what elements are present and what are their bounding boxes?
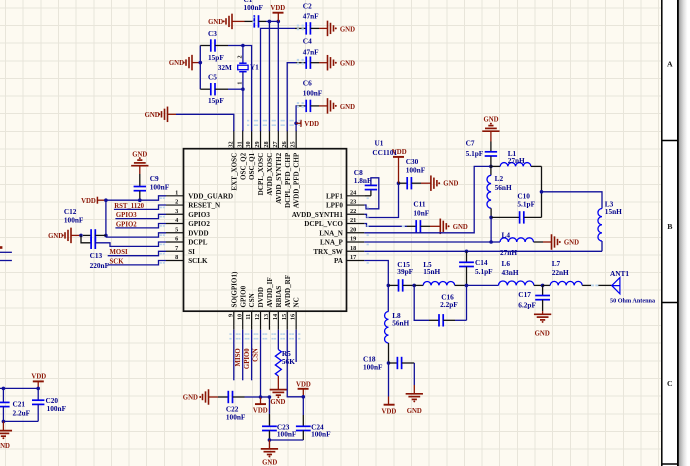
junction node AVDD_XOSC drop bbox=[268, 20, 272, 24]
pin 25 (AVDD_PFD_CHP) bbox=[295, 130, 297, 149]
svg-text:16: 16 bbox=[290, 314, 297, 320]
svg-text:DCPL_VCO: DCPL_VCO bbox=[304, 220, 343, 228]
ground GND (left of C1) bbox=[231, 14, 233, 30]
svg-text:29: 29 bbox=[254, 141, 261, 147]
wire C8 top loop to pin23 LPF0 bbox=[364, 178, 379, 209]
capacitor C30 bbox=[399, 182, 408, 184]
svg-text:23: 23 bbox=[350, 199, 356, 206]
capacitor C1 bbox=[253, 15, 255, 27]
pin 23 (LPF0) bbox=[347, 204, 365, 206]
junction VDD tee (right group) bbox=[302, 395, 306, 399]
pin 32 (EXT_XOSC) bbox=[233, 130, 235, 149]
ground GND (C23/C24) bbox=[268, 440, 270, 449]
svg-text:OSC_Q1: OSC_Q1 bbox=[248, 152, 256, 180]
svg-text:L7: L7 bbox=[552, 259, 561, 268]
svg-text:GND: GND bbox=[407, 408, 422, 415]
junction node pin25/VDD bbox=[294, 122, 298, 126]
wire L3 bottom to TRX_SW bbox=[601, 241, 603, 251]
svg-text:18: 18 bbox=[350, 245, 356, 252]
ground GND (C11) bbox=[439, 219, 441, 235]
pin 10 (GPIO0) bbox=[242, 311, 244, 330]
svg-text:GND: GND bbox=[208, 19, 223, 26]
svg-text:AVDD_XOSC: AVDD_XOSC bbox=[266, 153, 274, 196]
junction C7/L1/L2 node bbox=[489, 165, 493, 169]
svg-text:GPIO0: GPIO0 bbox=[244, 348, 251, 369]
svg-text:13: 13 bbox=[263, 314, 270, 320]
pin 9 (SO(GPIO1)) bbox=[233, 311, 235, 330]
inductor L4 bbox=[491, 241, 500, 243]
svg-text:L4: L4 bbox=[502, 231, 511, 240]
svg-text:10nF: 10nF bbox=[413, 208, 429, 217]
svg-text:L2: L2 bbox=[495, 174, 504, 183]
svg-text:17: 17 bbox=[350, 254, 356, 261]
svg-text:32: 32 bbox=[227, 141, 234, 147]
wire L1 right vertical bbox=[541, 166, 543, 217]
svg-text:LPF1: LPF1 bbox=[326, 192, 343, 200]
wire pin9 MISO bbox=[233, 330, 235, 381]
wire pin20 LNA_N bbox=[364, 166, 491, 232]
resistor R5 bbox=[277, 330, 279, 350]
svg-text:NC: NC bbox=[293, 297, 301, 307]
inductor L6 bbox=[467, 284, 499, 286]
power VDD (C22) bbox=[260, 397, 262, 404]
pin 26 (DCPL_PFD_CHP) bbox=[286, 130, 288, 149]
svg-text:DCPL_XOSC: DCPL_XOSC bbox=[257, 153, 265, 196]
svg-text:TRX_SW: TRX_SW bbox=[313, 248, 343, 256]
svg-text:C17: C17 bbox=[518, 290, 531, 299]
svg-text:DVDD: DVDD bbox=[188, 229, 209, 237]
svg-text:VDD: VDD bbox=[304, 121, 319, 128]
wire C5 right lead bbox=[215, 88, 228, 90]
wire pin26 to C4 bbox=[287, 63, 296, 132]
pin 11 (CSN) bbox=[251, 311, 253, 330]
junction GND node bbox=[268, 438, 272, 442]
svg-text:AVDD_PFD_CHP: AVDD_PFD_CHP bbox=[293, 152, 301, 208]
wire pin12 DVDD down bbox=[260, 330, 262, 397]
wire C9 upper lead bbox=[139, 166, 141, 174]
svg-text:SI: SI bbox=[188, 248, 195, 256]
junction node AVDD_SYNTH2 drop bbox=[277, 20, 281, 24]
svg-text:56nH: 56nH bbox=[495, 183, 512, 192]
svg-text:GND: GND bbox=[145, 112, 160, 119]
ground GND (pin32 EXT_XOSC) bbox=[167, 107, 169, 123]
svg-text:19: 19 bbox=[350, 236, 356, 243]
svg-text:VDD_GUARD: VDD_GUARD bbox=[188, 192, 233, 200]
svg-text:GPIO2: GPIO2 bbox=[188, 220, 210, 228]
wire pin13 down to C23 bbox=[268, 397, 270, 414]
svg-text:VDD: VDD bbox=[31, 374, 46, 381]
pin 29 (DCPL_XOSC) bbox=[260, 130, 262, 149]
wire C6 right lead bbox=[311, 105, 320, 107]
svg-text:ANT1: ANT1 bbox=[610, 269, 629, 278]
wire C20 bottom to C21 bbox=[3, 420, 38, 422]
svg-text:C2: C2 bbox=[303, 1, 312, 10]
svg-text:C: C bbox=[667, 379, 673, 388]
svg-text:26: 26 bbox=[281, 141, 288, 147]
wire VDD rail (bottom left) bbox=[0, 387, 38, 389]
svg-text:OSC_Q2: OSC_Q2 bbox=[239, 152, 247, 180]
svg-text:100nF: 100nF bbox=[311, 430, 331, 439]
svg-text:LNA_P: LNA_P bbox=[320, 239, 344, 247]
power VDD (C18) bbox=[388, 363, 390, 397]
svg-text:39pF: 39pF bbox=[397, 267, 413, 276]
wire C23/C24 bottoms to GND bbox=[268, 431, 270, 441]
pin 24 (LPF1) bbox=[347, 195, 365, 197]
wire VDD to pin1 VDD_GUARD bbox=[106, 196, 166, 200]
svg-text:15pF: 15pF bbox=[208, 96, 224, 105]
junction pin13 cross bbox=[268, 395, 272, 399]
svg-text:SO(GPIO1): SO(GPIO1) bbox=[230, 271, 238, 308]
svg-text:20: 20 bbox=[350, 226, 356, 233]
wire C1 right to VDD node bbox=[259, 20, 266, 22]
svg-text:VDD: VDD bbox=[270, 5, 285, 12]
svg-text:AVDD_SYNTH2: AVDD_SYNTH2 bbox=[275, 152, 283, 204]
capacitor C17 bbox=[542, 285, 544, 295]
capacitor C24 bbox=[296, 425, 311, 427]
ground GND (C6) bbox=[327, 98, 329, 114]
svg-text:GND: GND bbox=[169, 60, 184, 67]
svg-text:5.1pF: 5.1pF bbox=[466, 149, 484, 158]
inductor L2 bbox=[490, 166, 492, 175]
wire C3 left lead bbox=[200, 45, 210, 47]
wire L2 bottom to LNA_P bbox=[490, 217, 492, 242]
svg-text:27nH: 27nH bbox=[508, 156, 525, 165]
wire pin3 GPIO3 bbox=[115, 214, 166, 218]
capacitor C9 bbox=[134, 186, 146, 188]
capacitor C2 bbox=[305, 22, 307, 34]
wire crystal left vertical bbox=[199, 46, 201, 90]
svg-text:100nF: 100nF bbox=[64, 215, 84, 224]
crystal Y1 bbox=[242, 46, 244, 64]
pin 16 (NC) bbox=[295, 311, 297, 330]
wire pin5 DVDD bbox=[106, 233, 166, 237]
svg-text:47nF: 47nF bbox=[303, 12, 319, 21]
pin 27 (AVDD_SYNTH2) bbox=[277, 130, 279, 149]
ground GND (C30) bbox=[430, 175, 432, 191]
svg-text:GND: GND bbox=[183, 395, 198, 402]
capacitor C23 bbox=[262, 425, 277, 427]
wire C1 left lead bbox=[232, 20, 245, 22]
pin 21 (DCPL_VCO) bbox=[347, 223, 365, 225]
svg-text:GND: GND bbox=[270, 399, 285, 406]
capacitor C18 bbox=[389, 362, 398, 364]
ground GND (crystal) bbox=[191, 55, 193, 71]
svg-text:24: 24 bbox=[350, 189, 357, 196]
junction C9 tee bbox=[138, 198, 142, 202]
wire pin4 GPIO2 bbox=[115, 224, 166, 228]
svg-text:GPIO0: GPIO0 bbox=[239, 285, 247, 307]
svg-text:100nF: 100nF bbox=[244, 3, 264, 12]
pin 18 (TRX_SW) bbox=[347, 250, 365, 252]
svg-text:B: B bbox=[667, 222, 672, 231]
svg-text:27: 27 bbox=[272, 141, 279, 147]
svg-text:56nH: 56nH bbox=[392, 318, 409, 327]
svg-text:50 Ohm Antenna: 50 Ohm Antenna bbox=[610, 298, 655, 305]
ground GND (C4) bbox=[327, 55, 329, 70]
wire C30 right lead bbox=[412, 182, 422, 184]
pin 5 (DVDD) bbox=[166, 232, 184, 234]
wire GND down to C13 bbox=[81, 235, 91, 242]
svg-text:C6: C6 bbox=[303, 79, 312, 88]
svg-text:PA: PA bbox=[334, 257, 344, 265]
wire pin11 CSN bbox=[251, 330, 253, 381]
pin 6 (DCPL) bbox=[166, 241, 184, 243]
pin 12 (DVDD) bbox=[260, 311, 262, 330]
junction crystal gnd tee bbox=[199, 61, 203, 65]
svg-text:100nF: 100nF bbox=[303, 89, 323, 98]
svg-text:EXT_XOSC: EXT_XOSC bbox=[230, 153, 238, 191]
svg-text:C4: C4 bbox=[303, 37, 312, 46]
svg-text:220nF: 220nF bbox=[90, 261, 110, 270]
svg-text:30: 30 bbox=[245, 141, 252, 147]
wire C3 right lead bbox=[215, 45, 228, 47]
pin 22 (AVDD_SYNTH1) bbox=[347, 213, 365, 215]
wire pin21 DCPL_VCO to C11 bbox=[364, 224, 407, 227]
capacitor C7 bbox=[490, 131, 492, 141]
svg-text:2: 2 bbox=[175, 199, 178, 206]
svg-text:CSN: CSN bbox=[253, 348, 260, 362]
wire VDD rail to pin 27 bbox=[277, 21, 279, 131]
capacitor C20 bbox=[37, 388, 39, 400]
junction PA node bbox=[387, 284, 391, 288]
junction C18/VDD node bbox=[387, 361, 391, 365]
svg-text:10: 10 bbox=[236, 314, 243, 320]
svg-text:32M: 32M bbox=[218, 63, 232, 72]
svg-text:1.8nF: 1.8nF bbox=[354, 176, 372, 185]
pin 19 (LNA_P) bbox=[347, 241, 365, 243]
node OSC_Q1 (crystal bottom) bbox=[241, 87, 245, 91]
svg-text:C13: C13 bbox=[90, 251, 103, 260]
wire pin7 SI bbox=[108, 251, 166, 255]
pin 20 (LNA_N) bbox=[347, 232, 365, 234]
off-sheet label fragment bbox=[0, 246, 2, 249]
ground GND (C17) bbox=[542, 311, 544, 314]
svg-text:SCLK: SCLK bbox=[188, 257, 208, 265]
svg-text:CSN: CSN bbox=[248, 292, 256, 307]
svg-text:GND: GND bbox=[453, 224, 468, 231]
svg-text:6.2pF: 6.2pF bbox=[518, 301, 536, 310]
svg-text:21: 21 bbox=[350, 217, 356, 224]
wire pin15 AVDD_RF down bbox=[287, 330, 303, 397]
junction VDD tee bbox=[104, 198, 108, 202]
power VDD (top) bbox=[273, 12, 284, 14]
svg-text:AVDD_IF: AVDD_IF bbox=[266, 277, 274, 307]
capacitor C8 bbox=[370, 190, 372, 196]
inductor L7 bbox=[543, 284, 551, 286]
svg-text:LPF0: LPF0 bbox=[326, 202, 343, 210]
inductor L1 bbox=[491, 165, 500, 167]
capacitor C22 bbox=[209, 396, 219, 398]
ground GND (R5) bbox=[277, 376, 279, 390]
svg-text:GND: GND bbox=[48, 233, 63, 240]
sheet border zone column bbox=[678, 0, 687, 466]
svg-text:25: 25 bbox=[290, 141, 297, 147]
svg-text:RESET_N: RESET_N bbox=[188, 202, 221, 210]
junction LNA_P node bbox=[489, 240, 493, 244]
svg-text:VDD: VDD bbox=[382, 409, 397, 416]
pin 13 (AVDD_IF) bbox=[268, 311, 270, 330]
capacitor C21 bbox=[2, 388, 4, 402]
capacitor C12 bbox=[83, 234, 91, 236]
wire pin25 to C6 bbox=[296, 106, 297, 131]
svg-text:GND: GND bbox=[564, 240, 579, 247]
svg-text:GND: GND bbox=[443, 181, 458, 188]
junction C17 tee bbox=[541, 284, 545, 288]
svg-text:15nH: 15nH bbox=[423, 267, 440, 276]
svg-text:DCPL: DCPL bbox=[188, 239, 208, 247]
wire stub (off-sheet, row A) bbox=[0, 251, 12, 253]
svg-text:U1: U1 bbox=[375, 139, 384, 148]
junction off-sheet tee bbox=[2, 387, 6, 391]
svg-text:C21: C21 bbox=[13, 400, 26, 409]
wire crystal node to pin31 bbox=[242, 89, 244, 131]
junction C21 bottom bbox=[2, 420, 6, 424]
svg-text:VDD: VDD bbox=[392, 149, 407, 156]
svg-text:GND: GND bbox=[0, 443, 10, 450]
capacitor C14 bbox=[466, 251, 468, 262]
wire pin6 DCPL from C13 bbox=[95, 242, 166, 246]
ground GND (L4) bbox=[551, 234, 553, 250]
antenna ANT1 bbox=[612, 278, 620, 294]
ground GND (C21) bbox=[2, 421, 4, 430]
svg-text:31: 31 bbox=[236, 141, 243, 147]
wire pin17 PA bbox=[364, 261, 388, 286]
junction L3 branch node bbox=[540, 190, 544, 194]
junction C20 tee bbox=[36, 387, 40, 391]
junction VDD/C30 node bbox=[397, 181, 401, 185]
svg-text:L6: L6 bbox=[502, 259, 511, 268]
svg-text:5: 5 bbox=[175, 226, 178, 233]
pin 4 (GPIO2) bbox=[166, 223, 184, 225]
wire GND to pin32 bbox=[168, 113, 177, 115]
svg-text:47nF: 47nF bbox=[303, 47, 319, 56]
wire C11 right lead bbox=[421, 225, 431, 227]
svg-text:GND: GND bbox=[535, 331, 550, 338]
wire crystal top node to pin30 bbox=[243, 46, 252, 132]
svg-text:9: 9 bbox=[227, 314, 234, 317]
capacitor C4 bbox=[305, 57, 307, 69]
inductor L8 bbox=[387, 285, 389, 311]
wire pin24 LPF1 bbox=[364, 195, 371, 197]
capacitor C3 bbox=[210, 39, 212, 51]
junction L2/C10 node bbox=[489, 216, 493, 220]
svg-text:43nH: 43nH bbox=[502, 268, 519, 277]
wire VDD vertical to C12/DVDD bbox=[105, 200, 107, 237]
junction C15/L5/C16 node bbox=[412, 284, 416, 288]
svg-text:8: 8 bbox=[175, 254, 178, 261]
wire pin18 TRX_SW bbox=[364, 250, 602, 252]
pin 17 (PA) bbox=[347, 260, 365, 262]
svg-text:2.2pF: 2.2pF bbox=[440, 300, 458, 309]
wire antenna lead bbox=[596, 284, 611, 286]
pin 15 (AVDD_RF) bbox=[286, 311, 288, 330]
svg-text:GND: GND bbox=[340, 26, 355, 33]
svg-text:28: 28 bbox=[263, 141, 270, 147]
wire C5 left lead bbox=[200, 88, 210, 90]
pin 7 (SI) bbox=[166, 250, 184, 252]
wire C9 lower lead bbox=[139, 191, 141, 200]
svg-text:22nH: 22nH bbox=[552, 268, 569, 277]
svg-text:6: 6 bbox=[175, 236, 178, 243]
pin 30 (OSC_Q1) bbox=[251, 130, 253, 149]
svg-text:5.1pF: 5.1pF bbox=[517, 200, 535, 209]
svg-text:3: 3 bbox=[175, 208, 178, 215]
inductor L3 bbox=[598, 209, 602, 242]
ground GND (C18) bbox=[413, 363, 415, 385]
svg-text:C7: C7 bbox=[466, 139, 475, 148]
inductor L5 bbox=[414, 284, 423, 286]
wire pin10 GPIO0 bbox=[242, 330, 244, 381]
svg-text:100nF: 100nF bbox=[150, 182, 170, 191]
svg-text:GND: GND bbox=[340, 104, 355, 111]
svg-text:GND: GND bbox=[483, 117, 498, 124]
svg-text:LNA_N: LNA_N bbox=[319, 229, 344, 237]
junction C14 tee bbox=[465, 250, 469, 254]
svg-text:A: A bbox=[667, 60, 673, 69]
svg-text:14: 14 bbox=[272, 313, 279, 320]
svg-text:GND: GND bbox=[340, 61, 355, 68]
junction GND tee bbox=[79, 234, 83, 238]
capacitor C5 bbox=[210, 83, 212, 95]
wire C2 right lead bbox=[311, 27, 320, 29]
junction C14/C16/L6 node bbox=[465, 284, 469, 288]
svg-text:15pF: 15pF bbox=[208, 53, 224, 62]
svg-text:12: 12 bbox=[254, 314, 261, 320]
svg-text:GPIO3: GPIO3 bbox=[188, 211, 210, 219]
svg-text:RBIAS: RBIAS bbox=[275, 286, 283, 308]
junction DVDD/VDD node bbox=[259, 395, 263, 399]
wire pin8 SCLK bbox=[108, 261, 166, 265]
svg-text:VDD: VDD bbox=[81, 198, 96, 205]
wire pin19 LNA_P bbox=[364, 241, 491, 243]
pin 28 (AVDD_XOSC) bbox=[268, 130, 270, 149]
wire pin22 AVDD_SYNTH1 to VDD bbox=[364, 183, 398, 217]
svg-text:5.1pF: 5.1pF bbox=[475, 267, 493, 276]
wire VDD rail to pin13 bbox=[261, 396, 270, 398]
svg-text:DCPL_PFD_CHP: DCPL_PFD_CHP bbox=[284, 152, 292, 208]
svg-text:15nH: 15nH bbox=[605, 207, 622, 216]
wire pin29 to C2 bbox=[261, 28, 296, 131]
pin 2 (RESET_N) bbox=[166, 204, 184, 206]
svg-text:1: 1 bbox=[237, 82, 244, 85]
wire C4 right lead bbox=[311, 62, 320, 64]
pin 1 (VDD_GUARD) bbox=[166, 195, 184, 197]
wire VDD rail to pin 28 bbox=[268, 21, 270, 131]
svg-text:7: 7 bbox=[175, 245, 178, 252]
svg-text:VDD: VDD bbox=[253, 408, 268, 415]
wire pin16 NC down bbox=[295, 330, 297, 362]
capacitor C6 bbox=[305, 100, 307, 112]
svg-text:AVDD_RF: AVDD_RF bbox=[284, 275, 292, 308]
pin 3 (GPIO3) bbox=[166, 213, 184, 215]
compile marks bbox=[160, 17, 599, 340]
svg-text:DVDD: DVDD bbox=[257, 287, 265, 308]
svg-text:C3: C3 bbox=[208, 29, 217, 38]
svg-text:2: 2 bbox=[237, 55, 244, 58]
capacitor C13 bbox=[90, 237, 92, 249]
svg-text:56K: 56K bbox=[282, 357, 295, 366]
power VDD (U1 right) bbox=[398, 157, 400, 183]
svg-text:2.2uF: 2.2uF bbox=[13, 409, 31, 418]
op-amp U1 body (CC1101 IC outline) bbox=[184, 149, 347, 312]
capacitor C16 (parallel branch) bbox=[414, 285, 429, 320]
svg-text:GND: GND bbox=[262, 459, 277, 466]
capacitor C10 bbox=[491, 216, 519, 218]
svg-text:AVDD_SYNTH1: AVDD_SYNTH1 bbox=[292, 211, 344, 219]
svg-text:1: 1 bbox=[175, 189, 178, 196]
svg-text:100nF: 100nF bbox=[226, 413, 246, 422]
wire node to L3 bbox=[542, 192, 603, 209]
